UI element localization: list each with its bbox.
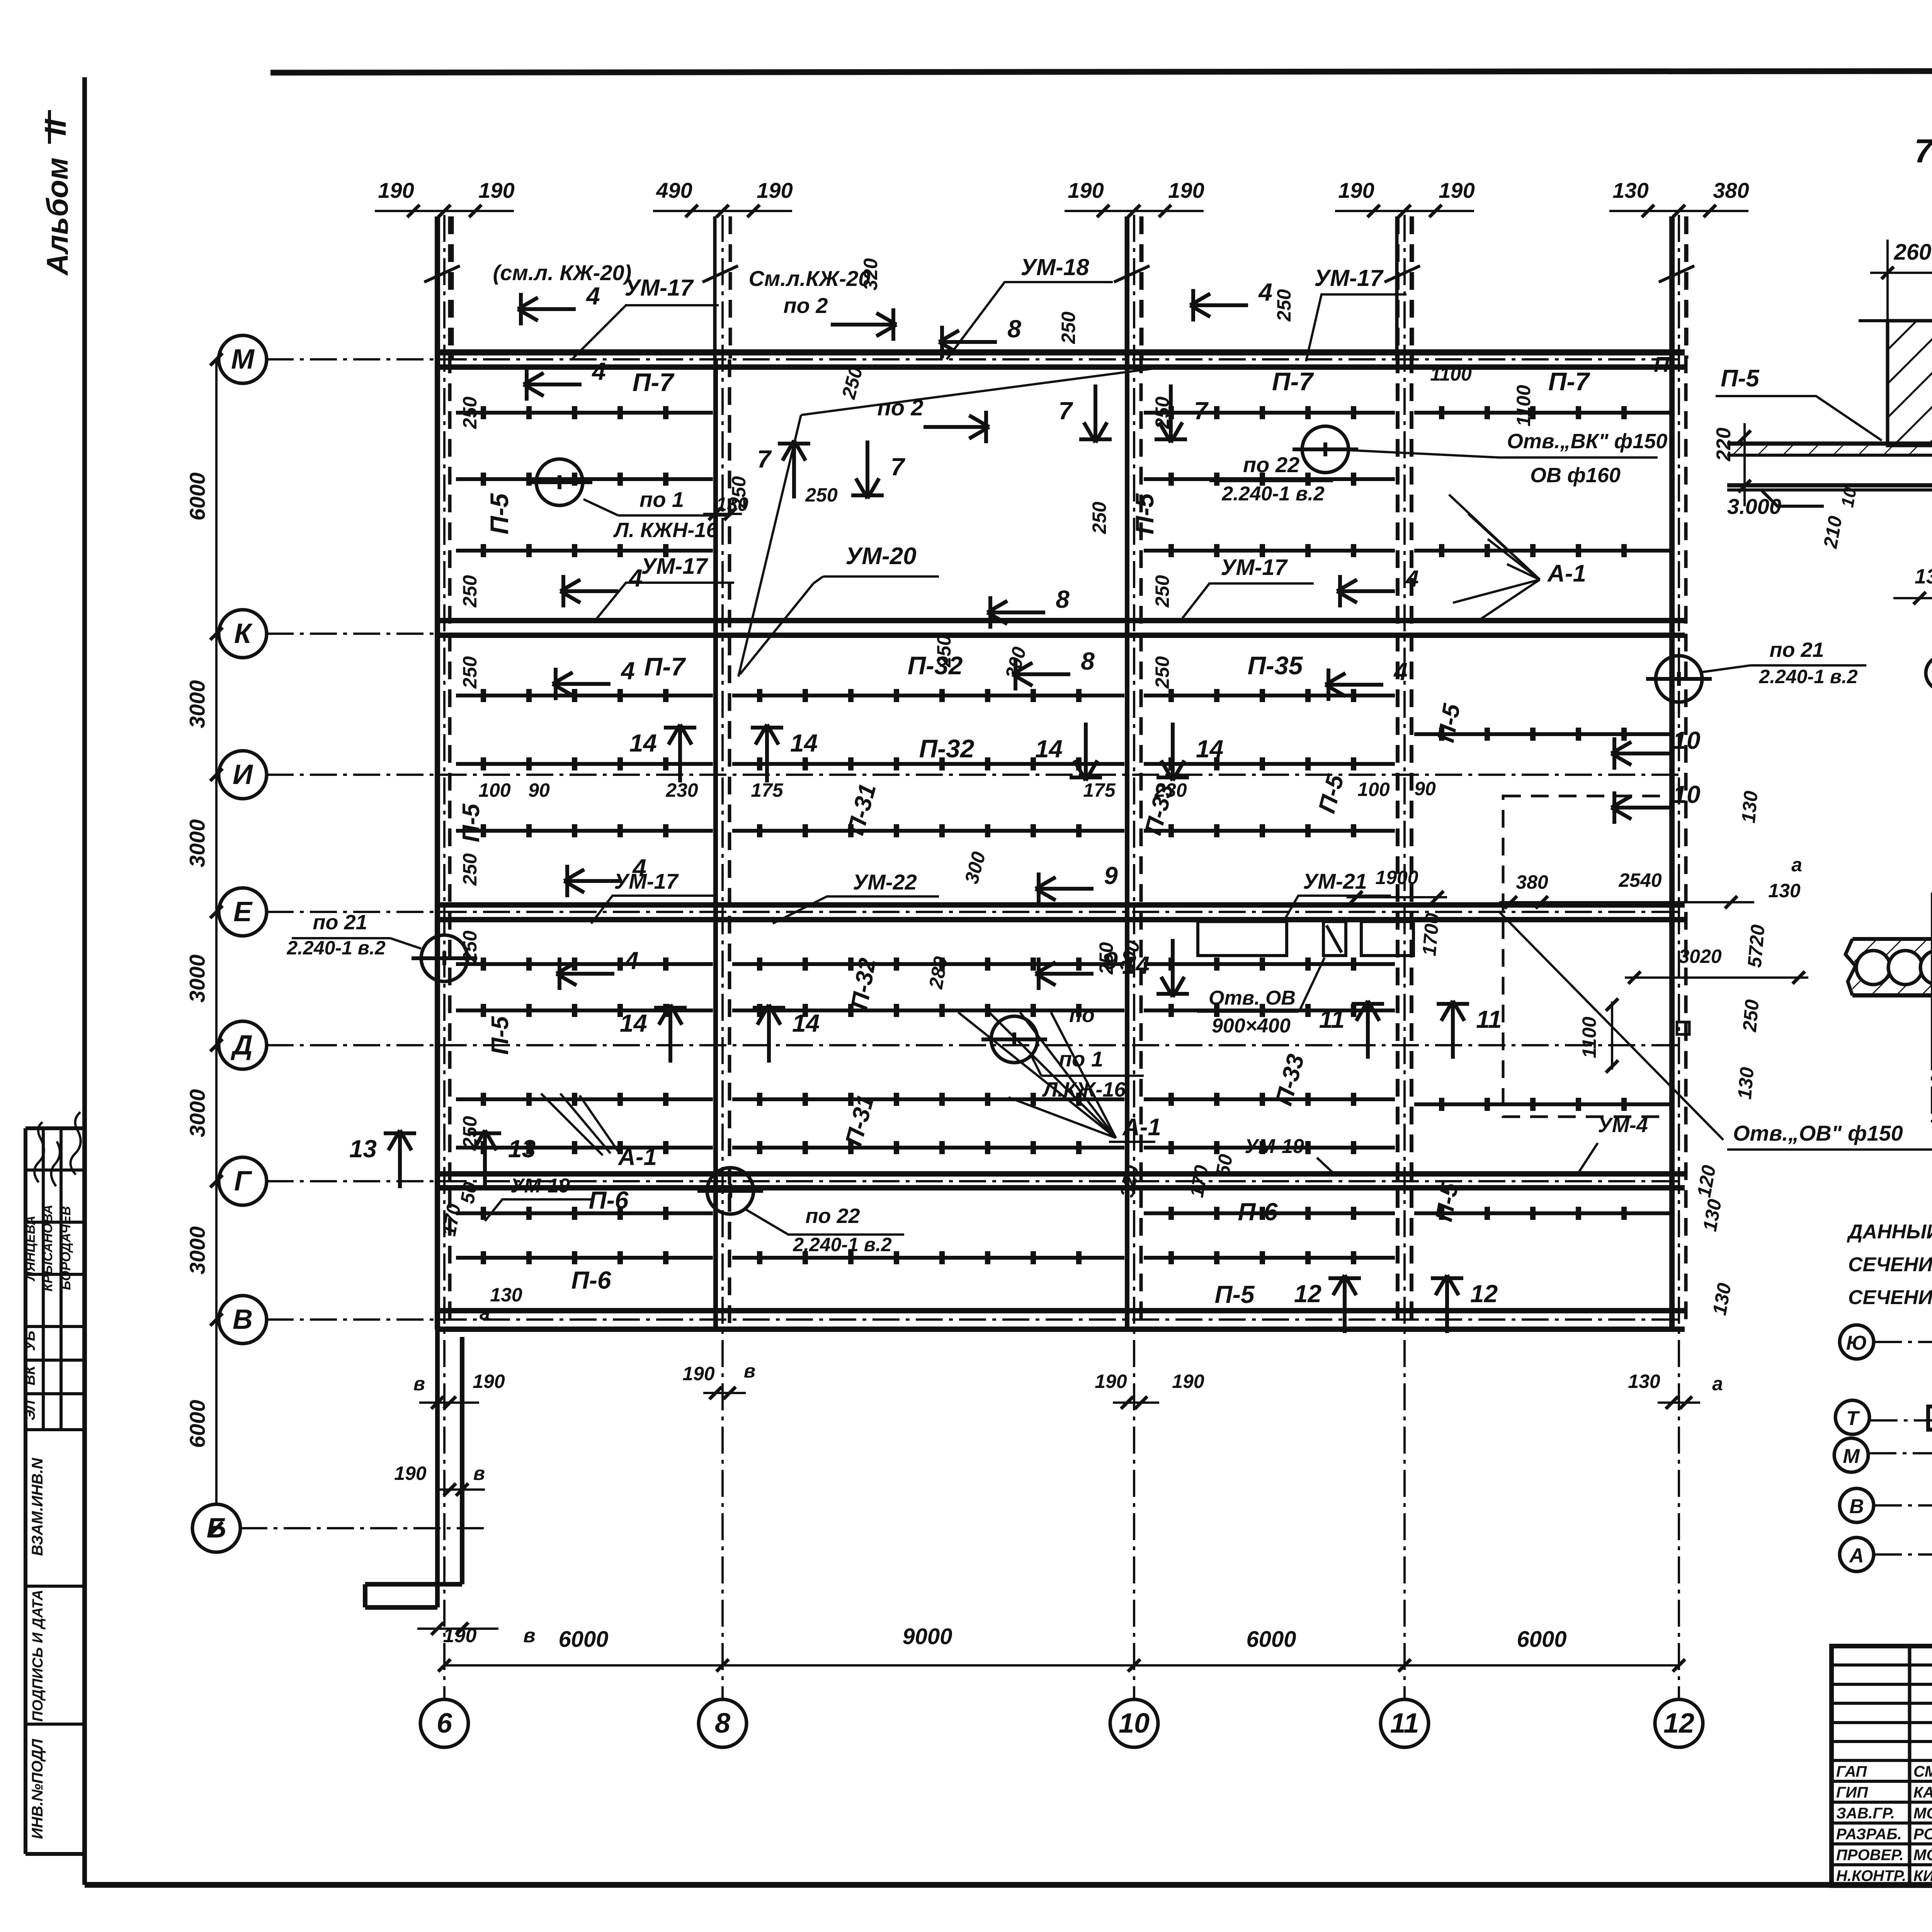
svg-text:4: 4 <box>591 357 606 385</box>
svg-text:Т: Т <box>1846 1407 1860 1430</box>
svg-text:К: К <box>234 618 253 649</box>
svg-text:250: 250 <box>459 575 481 608</box>
left dimension column <box>215 359 218 1503</box>
svg-text:в: в <box>744 1360 755 1382</box>
svg-text:13: 13 <box>349 1135 377 1163</box>
svg-text:4: 4 <box>632 854 646 882</box>
svg-text:11: 11 <box>1476 1005 1502 1033</box>
svg-text:П-7: П-7 <box>1548 367 1590 396</box>
svg-text:4: 4 <box>1258 278 1272 306</box>
svg-text:250: 250 <box>728 476 750 509</box>
svg-text:2.240-1 в.2: 2.240-1 в.2 <box>286 937 386 959</box>
svg-text:9: 9 <box>1104 862 1118 889</box>
axis Б <box>192 1504 240 1552</box>
svg-text:РАЗРАБ.: РАЗРАБ. <box>1836 1826 1902 1843</box>
svg-text:ГИП: ГИП <box>1836 1784 1868 1801</box>
svg-text:3020: 3020 <box>1679 946 1721 967</box>
wall beam row Е <box>437 902 1685 908</box>
svg-text:250: 250 <box>459 930 481 963</box>
svg-text:II: II <box>38 119 72 136</box>
svg-text:250: 250 <box>1088 502 1110 534</box>
svg-text:2.240-1 в.2: 2.240-1 в.2 <box>1221 483 1325 505</box>
bottom dimension line <box>444 1664 1679 1667</box>
wall beam row К <box>437 618 1685 623</box>
svg-text:190: 190 <box>394 1463 427 1484</box>
svg-text:4: 4 <box>1405 566 1418 592</box>
svg-text:380: 380 <box>1516 871 1548 893</box>
svg-text:12: 12 <box>1294 1280 1321 1308</box>
svg-text:по 21: по 21 <box>313 911 367 934</box>
svg-text:6000: 6000 <box>185 473 209 521</box>
top dimension marks <box>375 210 514 212</box>
svg-text:190: 190 <box>473 1371 505 1392</box>
svg-text:Ю: Ю <box>1846 1332 1867 1354</box>
svg-text:130: 130 <box>1612 178 1648 202</box>
svg-text:УМ-22: УМ-22 <box>853 870 917 894</box>
svg-text:а: а <box>1712 1373 1723 1395</box>
svg-text:8: 8 <box>715 1708 730 1739</box>
svg-text:12: 12 <box>1663 1708 1694 1739</box>
svg-text:УМ-19: УМ-19 <box>510 1175 570 1197</box>
svg-text:190: 190 <box>1095 1371 1127 1392</box>
key plan building outline <box>1928 1337 1932 1546</box>
svg-text:10: 10 <box>1837 486 1860 509</box>
svg-text:6000: 6000 <box>1517 1627 1566 1652</box>
svg-text:14: 14 <box>790 729 818 757</box>
svg-text:220: 220 <box>1713 428 1735 462</box>
svg-text:13: 13 <box>508 1135 536 1163</box>
svg-text:190: 190 <box>1168 178 1204 202</box>
svg-text:3000: 3000 <box>185 680 209 728</box>
svg-text:190: 190 <box>682 1363 715 1384</box>
А-1 leader fans <box>541 1094 603 1155</box>
wall axis 11 <box>1396 216 1400 1329</box>
svg-text:6000: 6000 <box>185 1400 209 1448</box>
key plan axis lines <box>1875 1341 1932 1343</box>
9-9 slab band <box>1852 940 1932 995</box>
svg-text:190: 190 <box>757 178 793 202</box>
svg-text:(см.л. КЖ-20): (см.л. КЖ-20) <box>493 260 632 285</box>
svg-text:Д: Д <box>230 1030 253 1061</box>
section mark arrows <box>518 307 576 311</box>
7-7 slab <box>1727 442 1932 446</box>
svg-text:7: 7 <box>1194 397 1209 425</box>
panel joint lines row М-К <box>456 411 713 415</box>
svg-text:50: 50 <box>456 1180 481 1206</box>
wall beam row Г <box>437 1171 1685 1177</box>
svg-text:УМ-17: УМ-17 <box>1314 265 1384 291</box>
svg-text:250: 250 <box>459 656 481 689</box>
horizontal letter axes <box>219 335 267 383</box>
svg-text:250: 250 <box>1273 289 1295 322</box>
svg-text:190: 190 <box>1172 1371 1204 1392</box>
svg-text:14: 14 <box>1035 735 1063 763</box>
svg-text:ЗАВ.ГР.: ЗАВ.ГР. <box>1836 1805 1895 1822</box>
svg-text:БОРОДАЧЕВ: БОРОДАЧЕВ <box>59 1206 73 1290</box>
wall axis 6 (left outer wall) <box>435 216 440 1329</box>
svg-text:по 2: по 2 <box>877 395 923 420</box>
svg-text:14: 14 <box>1196 735 1223 763</box>
svg-text:190: 190 <box>1439 178 1475 202</box>
svg-text:1700: 1700 <box>1418 912 1443 957</box>
svg-text:175: 175 <box>751 779 784 801</box>
svg-text:90: 90 <box>1414 778 1436 799</box>
svg-text:11: 11 <box>1390 1708 1419 1739</box>
svg-text:в: в <box>523 1624 535 1647</box>
wall beam row В <box>437 1308 1685 1313</box>
svg-text:по 1: по 1 <box>639 487 684 512</box>
svg-text:ЛЯНЦЕВА: ЛЯНЦЕВА <box>23 1216 38 1282</box>
svg-text:ИНВ.№ПОДЛ: ИНВ.№ПОДЛ <box>29 1738 46 1839</box>
svg-text:Отв.„ОВ" ф150: Отв.„ОВ" ф150 <box>1733 1121 1903 1145</box>
svg-text:УМ-19: УМ-19 <box>1245 1135 1304 1158</box>
frame border <box>82 77 87 1885</box>
svg-text:УБ: УБ <box>22 1331 38 1351</box>
svg-text:130: 130 <box>490 1284 522 1306</box>
svg-text:6000: 6000 <box>1246 1627 1296 1652</box>
svg-text:190: 190 <box>478 178 514 202</box>
wall beam row М <box>437 349 1685 355</box>
svg-text:Отв. ОВ: Отв. ОВ <box>1209 987 1296 1009</box>
svg-text:КИРЧЕНКОВА: КИРЧЕНКОВА <box>1913 1867 1932 1884</box>
svg-text:130: 130 <box>1768 880 1801 901</box>
svg-text:а: а <box>1791 854 1802 876</box>
svg-text:а: а <box>480 1302 490 1324</box>
svg-text:380: 380 <box>1713 178 1749 202</box>
svg-text:См.л.КЖ-20: См.л.КЖ-20 <box>748 266 870 291</box>
title block <box>1832 1646 1932 1886</box>
svg-text:ВЗАМ.ИНВ.N: ВЗАМ.ИНВ.N <box>29 1458 46 1556</box>
svg-text:по: по <box>1069 1003 1095 1027</box>
svg-text:по 1: по 1 <box>1059 1047 1103 1071</box>
svg-text:Г: Г <box>234 1166 252 1197</box>
svg-text:7: 7 <box>1058 397 1073 425</box>
svg-text:250: 250 <box>1095 942 1117 975</box>
small openings near Е row <box>1198 922 1287 956</box>
vertical number axes <box>443 215 446 1699</box>
svg-text:230: 230 <box>665 779 698 801</box>
svg-text:УМ-17: УМ-17 <box>1221 555 1288 580</box>
svg-text:МОРОЗОВА: МОРОЗОВА <box>1913 1805 1932 1822</box>
svg-text:250: 250 <box>1738 998 1763 1033</box>
panel joint lines row Г-В <box>456 1211 713 1215</box>
svg-text:Отв.„ВК" ф150: Отв.„ВК" ф150 <box>1507 430 1667 453</box>
svg-text:490: 490 <box>656 178 692 202</box>
svg-text:7 - 7: 7 - 7 <box>1914 133 1932 170</box>
svg-text:П-6: П-6 <box>589 1186 629 1214</box>
svg-text:250: 250 <box>1151 575 1173 608</box>
svg-text:1100: 1100 <box>1513 385 1534 427</box>
svg-text:10: 10 <box>1119 1708 1150 1739</box>
svg-text:7: 7 <box>757 445 772 473</box>
svg-text:ВК: ВК <box>22 1365 38 1385</box>
svg-text:А-1: А-1 <box>1547 560 1586 587</box>
svg-text:УМ-17: УМ-17 <box>614 869 679 893</box>
svg-text:4: 4 <box>624 947 639 975</box>
svg-text:П-7: П-7 <box>1272 367 1314 396</box>
svg-text:по 21: по 21 <box>1769 638 1824 662</box>
panel joint lines row Д-Г <box>456 1097 713 1101</box>
svg-text:РОНДАРЕВА: РОНДАРЕВА <box>1913 1826 1932 1843</box>
svg-text:КРЫСАНОВА: КРЫСАНОВА <box>41 1205 55 1292</box>
7-7 brick wall hatched <box>1888 321 1932 446</box>
svg-text:УМ-4: УМ-4 <box>1598 1114 1648 1137</box>
svg-text:УМ-18: УМ-18 <box>1020 254 1089 280</box>
svg-text:2.240-1 в.2: 2.240-1 в.2 <box>1759 666 1858 687</box>
svg-text:130: 130 <box>1628 1371 1660 1392</box>
svg-text:А-1: А-1 <box>1122 1114 1161 1141</box>
svg-text:П-35: П-35 <box>1248 651 1303 680</box>
svg-text:50: 50 <box>1212 1153 1237 1178</box>
svg-text:П-7: П-7 <box>633 368 675 396</box>
svg-text:П-5: П-5 <box>458 803 485 842</box>
svg-text:В: В <box>233 1304 253 1335</box>
svg-text:5720: 5720 <box>1743 923 1769 968</box>
svg-text:14: 14 <box>620 1009 647 1037</box>
svg-text:МОРОЗОВА: МОРОЗОВА <box>1913 1847 1932 1864</box>
svg-text:ПРОВЕР.: ПРОВЕР. <box>1836 1847 1904 1864</box>
svg-text:1100: 1100 <box>1430 363 1472 385</box>
panel joint lines row Е-Д <box>456 962 713 966</box>
svg-text:100: 100 <box>478 779 511 801</box>
svg-text:УМ-21: УМ-21 <box>1303 869 1367 893</box>
svg-text:8: 8 <box>1007 315 1021 343</box>
svg-text:В: В <box>1849 1495 1864 1518</box>
svg-text:ПОДПИСЬ И ДАТА: ПОДПИСЬ И ДАТА <box>30 1590 46 1722</box>
svg-text:УМ-17: УМ-17 <box>624 275 694 301</box>
svg-text:130: 130 <box>1915 565 1932 588</box>
svg-text:3000: 3000 <box>185 1226 209 1275</box>
svg-text:11: 11 <box>1319 1005 1345 1033</box>
svg-text:4: 4 <box>585 282 600 310</box>
по references with circles <box>536 459 583 505</box>
svg-text:П-5: П-5 <box>487 1016 514 1055</box>
svg-text:6000: 6000 <box>558 1627 608 1652</box>
svg-text:250: 250 <box>1058 311 1079 344</box>
svg-text:Е: Е <box>233 896 253 927</box>
svg-text:2.240-1 в.2: 2.240-1 в.2 <box>793 1234 892 1255</box>
svg-text:УМ-20: УМ-20 <box>845 543 916 570</box>
svg-text:КАЛЕДИНА: КАЛЕДИНА <box>1913 1784 1932 1801</box>
svg-text:СЕЧЕНИЯ 2-2;4-4 СМ. Л. КЖ-20: СЕЧЕНИЯ 2-2;4-4 СМ. Л. КЖ-20 <box>1848 1253 1932 1276</box>
svg-text:250: 250 <box>805 484 838 506</box>
svg-text:П-6: П-6 <box>571 1266 611 1294</box>
svg-text:260: 260 <box>1894 240 1932 265</box>
svg-text:9000: 9000 <box>902 1624 952 1649</box>
svg-text:250: 250 <box>459 396 481 429</box>
svg-text:250: 250 <box>459 853 481 886</box>
svg-text:190: 190 <box>1338 178 1374 202</box>
svg-text:ОВ ф160: ОВ ф160 <box>1530 464 1621 487</box>
svg-text:2540: 2540 <box>1618 869 1662 891</box>
svg-text:4: 4 <box>628 564 643 592</box>
svg-text:8: 8 <box>1056 585 1070 613</box>
svg-text:190: 190 <box>1068 178 1104 202</box>
svg-text:175: 175 <box>1083 779 1116 801</box>
svg-text:3000: 3000 <box>185 954 209 1003</box>
panel joint lines row И-Е <box>456 829 713 833</box>
svg-text:ДАННЫЙ ЛИСТ СМОТРЕТЬ СОВМЕСТН: ДАННЫЙ ЛИСТ СМОТРЕТЬ СОВМЕСТНО С КЖ-20 <box>1847 1220 1932 1243</box>
svg-text:М: М <box>231 344 255 375</box>
svg-text:10: 10 <box>1673 726 1700 754</box>
svg-text:1100: 1100 <box>1578 1017 1600 1058</box>
svg-text:Альбом: Альбом <box>40 158 74 276</box>
left margin stamp tables <box>24 1128 27 1854</box>
svg-text:ЭЛ: ЭЛ <box>22 1400 38 1420</box>
key plan <box>1840 1325 1874 1359</box>
svg-text:по 2: по 2 <box>783 293 828 318</box>
svg-text:320: 320 <box>860 258 881 291</box>
svg-text:П-5: П-5 <box>485 493 514 534</box>
svg-text:3000: 3000 <box>185 1089 209 1138</box>
svg-text:14: 14 <box>792 1009 820 1037</box>
svg-text:90: 90 <box>528 779 550 801</box>
svg-text:250: 250 <box>459 1116 481 1149</box>
svg-text:А-1: А-1 <box>617 1144 657 1170</box>
svg-text:И: И <box>233 759 253 790</box>
svg-text:14: 14 <box>629 729 657 757</box>
svg-text:1900: 1900 <box>1375 867 1418 888</box>
svg-text:7: 7 <box>891 453 906 481</box>
svg-text:по 22: по 22 <box>805 1204 860 1228</box>
svg-text:4: 4 <box>620 657 635 685</box>
svg-text:4: 4 <box>1393 658 1408 685</box>
svg-text:3000: 3000 <box>185 819 209 867</box>
svg-text:190: 190 <box>378 178 414 202</box>
svg-text:Л. КЖН-16: Л. КЖН-16 <box>613 519 718 542</box>
svg-text:А: А <box>1849 1544 1864 1567</box>
svg-text:12: 12 <box>1470 1280 1498 1308</box>
dashed opening row 11-12 <box>1503 796 1671 1117</box>
svg-text:П-7: П-7 <box>644 652 686 681</box>
svg-text:П-32: П-32 <box>919 734 975 763</box>
svg-text:УМ-17: УМ-17 <box>641 554 708 579</box>
panel joint lines row К-И <box>456 694 713 697</box>
svg-text:П-6: П-6 <box>1238 1198 1278 1226</box>
svg-text:900×400: 900×400 <box>1212 1015 1291 1037</box>
svg-text:в: в <box>473 1463 485 1484</box>
svg-text:П: П <box>1654 352 1670 376</box>
bottom-left wall extension to axis Б <box>435 1329 440 1607</box>
svg-text:по 22: по 22 <box>1243 452 1299 477</box>
svg-text:3.000: 3.000 <box>1727 494 1781 519</box>
svg-text:Н.КОНТР.: Н.КОНТР. <box>1836 1867 1906 1884</box>
svg-text:6: 6 <box>437 1708 452 1739</box>
svg-text:М: М <box>1843 1445 1860 1468</box>
svg-text:10: 10 <box>1673 781 1700 808</box>
svg-text:8: 8 <box>1081 647 1095 675</box>
svg-text:250: 250 <box>933 635 955 668</box>
svg-text:130: 130 <box>1738 790 1762 824</box>
svg-text:П-5: П-5 <box>1721 365 1760 392</box>
svg-text:230: 230 <box>1154 779 1187 801</box>
svg-text:130: 130 <box>1734 1066 1758 1100</box>
svg-text:СМИРНОВ: СМИРНОВ <box>1913 1763 1932 1780</box>
svg-text:250: 250 <box>1151 656 1173 689</box>
wall axis 8 <box>713 359 718 1329</box>
svg-text:в: в <box>413 1373 425 1395</box>
wall axis 10 <box>1125 216 1129 1329</box>
wall axis 12 (right outer wall) <box>1669 216 1675 1329</box>
svg-text:ГАП: ГАП <box>1836 1763 1867 1780</box>
svg-text:П-5: П-5 <box>1215 1281 1255 1308</box>
svg-text:П-5: П-5 <box>1130 493 1159 534</box>
svg-text:СЕЧЕНИЯ 11-11 ÷ 14-14 СМ. ЛИ: СЕЧЕНИЯ 11-11 ÷ 14-14 СМ. ЛИСТ КЖ-27 <box>1848 1286 1932 1309</box>
svg-text:100: 100 <box>1357 779 1390 800</box>
svg-text:250: 250 <box>1151 396 1173 429</box>
